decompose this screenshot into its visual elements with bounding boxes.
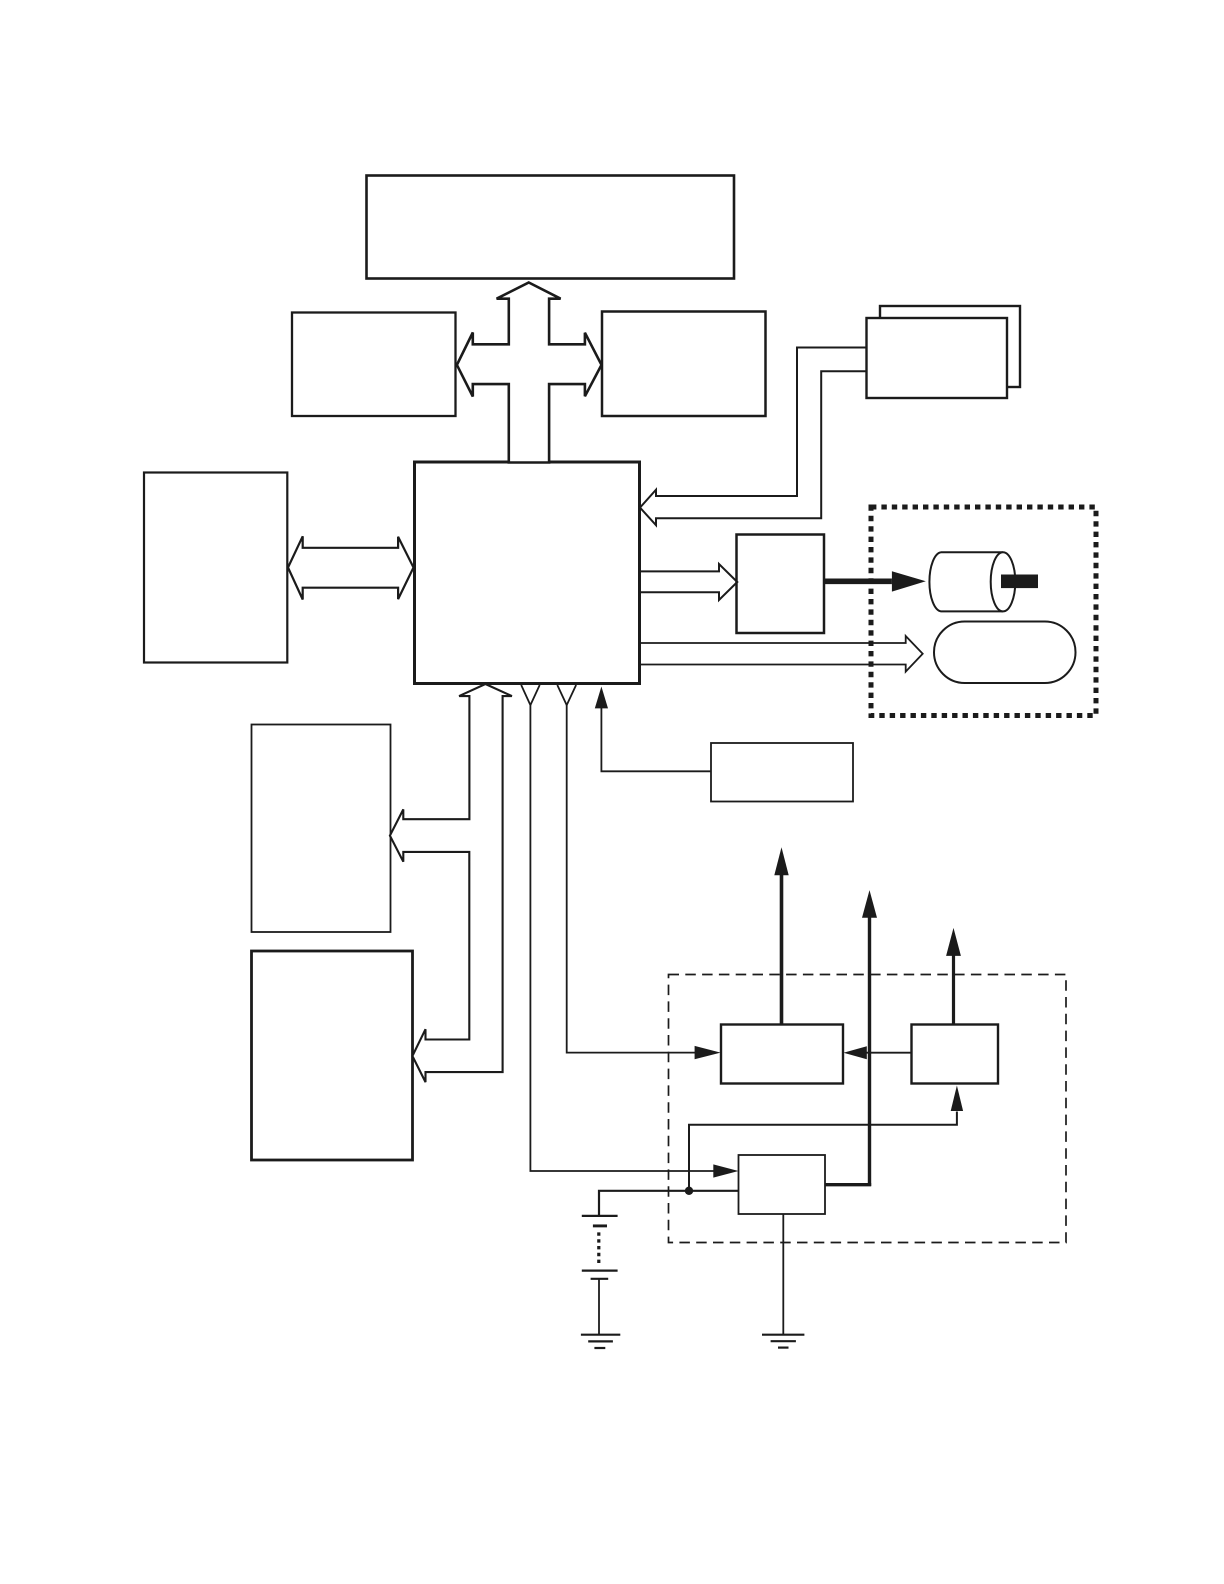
battery BT1 (582, 1215, 618, 1217)
block B10 (lower left) (252, 951, 413, 1160)
block B11 (regulator) (721, 1025, 843, 1084)
wire from B5 bottom to B11 with open V arrowhead (557, 685, 576, 705)
block B7 (driver, right of B5) (737, 535, 825, 634)
wire from B5 bottom to B13 with open V arrowhead (521, 685, 540, 705)
thick output arrow from B12 up (952, 956, 955, 1025)
thick output arrow from B11 up (780, 875, 784, 1025)
motor M1 (cylinder) (929, 552, 1003, 611)
wire battery to ground (598, 1279, 600, 1335)
ground G1 (581, 1334, 620, 1336)
motor M1 shaft (1001, 575, 1038, 589)
block B2 (left of cross) (292, 313, 456, 417)
wire with solid arrow from B8 into B5 bottom (601, 708, 711, 771)
central block B5 (415, 462, 640, 684)
wire from junction up into B12 bottom (689, 1112, 957, 1191)
block B9 (upper left) (252, 725, 391, 933)
four-way hollow arrow between B1,B2,B3,B5 (457, 283, 602, 463)
block B13 (switch) (739, 1155, 826, 1214)
stacked blocks B4 (top right, back sheet) (880, 306, 1020, 387)
block B6 (far left) (144, 473, 287, 663)
ground G2 (762, 1334, 804, 1336)
hollow arrow B5 to B7 (640, 564, 738, 600)
block B8 (sensor, mid right) (711, 743, 853, 802)
block B1 (top) (367, 176, 735, 279)
block B3 (right of cross) (602, 312, 766, 417)
indicator (stadium shape) (934, 622, 1076, 684)
branched hollow arrow into B5 bottom, B9 and B10 (390, 684, 512, 1082)
dotted enclosure (871, 507, 1096, 716)
stacked blocks B4 (front sheet) (867, 318, 1008, 398)
hollow arrow B5 to indicator (640, 636, 923, 672)
junction dot (685, 1187, 693, 1195)
block B12 (regulator 2) (912, 1025, 999, 1084)
wire from battery to B13 (599, 1191, 739, 1216)
dashed enclosure (power section) (669, 975, 1067, 1243)
double-headed hollow arrow B6 to B5 (288, 536, 414, 599)
thick arrow B7 to motor M1 (824, 579, 892, 585)
thick output arrow from B13 right up (825, 1183, 871, 1186)
wire hollow arrow from B4 into B5 right side (640, 348, 867, 526)
wire arrow B12 to B11 (866, 1052, 912, 1054)
wire B13 to ground (782, 1214, 784, 1335)
